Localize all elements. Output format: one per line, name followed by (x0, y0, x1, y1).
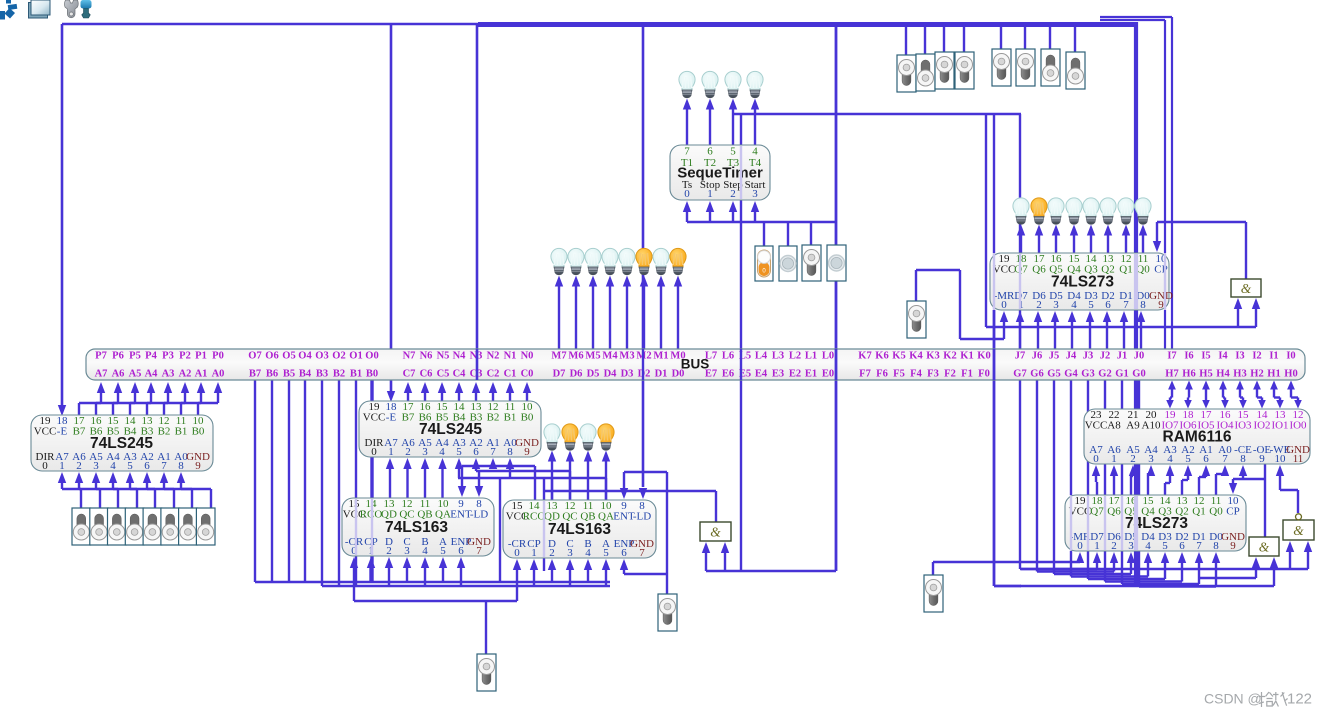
wire 245B B to bus C (438, 382, 446, 401)
wire 245A B to bus A (113, 382, 139, 415)
wire 163B Q to lamp (602, 451, 610, 501)
wire riser QA U4 (605, 478, 607, 500)
svg-text:0: 0 (1077, 540, 1083, 552)
svg-text:D6: D6 (570, 369, 583, 380)
wire bus B vertical (254, 380, 256, 582)
wire bus H to RAM IO bidirectional (1166, 381, 1176, 409)
switch data toggle (161, 508, 180, 545)
svg-text:3: 3 (1053, 299, 1059, 311)
lamp bus M (568, 248, 584, 274)
wire trunk top horizontal (62, 23, 1137, 26)
svg-text:-LD: -LD (470, 509, 488, 521)
wire 273B Q to RAM A (1092, 465, 1100, 495)
svg-text:7: 7 (476, 545, 482, 557)
svg-text:B2: B2 (487, 412, 500, 424)
svg-text:F2: F2 (944, 369, 956, 380)
svg-text:G3: G3 (1081, 369, 1094, 380)
svg-text:4: 4 (585, 547, 591, 559)
IC 74LS245 U2 (359, 401, 541, 458)
wire 245B B to bus C (404, 382, 412, 401)
wire 245A B to bus A (79, 382, 105, 415)
wire switch stub (1049, 24, 1051, 49)
svg-text:8: 8 (1140, 299, 1146, 311)
lamp 163B Q (562, 424, 578, 450)
svg-text:122: 122 (1287, 691, 1312, 708)
svg-text:E4: E4 (755, 369, 768, 380)
svg-text:J0: J0 (1134, 351, 1145, 362)
wire pale under 273B (1070, 496, 1072, 550)
svg-text:O0: O0 (365, 351, 378, 362)
wire bus M to lamp (657, 276, 665, 350)
wire AND G2 output (544, 491, 716, 522)
wire switch stub (1000, 24, 1002, 49)
svg-text:B4: B4 (299, 369, 312, 380)
wire T output to lamp (751, 99, 759, 146)
wire bus M to lamp (606, 276, 614, 350)
lamp sequetimer T (679, 71, 695, 97)
svg-text:E2: E2 (789, 369, 801, 380)
wire -MR net 273A (916, 270, 1008, 339)
lamp sequetimer T (725, 71, 741, 97)
wire bus J to 273A D pin (1034, 311, 1042, 349)
wire switch to 245A A pin (109, 472, 137, 508)
lamp 163B Q (580, 424, 596, 450)
wire 245B B to bus C (472, 382, 480, 401)
svg-text:ENT: ENT (613, 511, 635, 523)
svg-text:2: 2 (549, 547, 555, 559)
svg-text:H1: H1 (1267, 369, 1280, 380)
svg-text:J4: J4 (1066, 351, 1077, 362)
wire crossing bus x643 segment (642, 349, 644, 380)
wire trunk thick vertical to bus J0 (1134, 22, 1138, 349)
svg-text:I4: I4 (1218, 351, 1228, 362)
wire bus M to lamp (555, 276, 563, 350)
wire riser to 163 pin (602, 559, 610, 586)
svg-text:F1: F1 (961, 369, 973, 380)
wire AND G3 inputs (1020, 557, 1278, 586)
svg-text:K4: K4 (909, 351, 923, 362)
svg-text:P5: P5 (129, 351, 141, 362)
wire -LD 163A drop (475, 471, 483, 497)
wire pale under 163A (355, 499, 357, 555)
svg-text:9: 9 (1158, 299, 1164, 311)
svg-text:C2: C2 (487, 369, 500, 380)
wire bus J to 273A D pin (1086, 311, 1094, 349)
wire switch stub (905, 24, 907, 55)
switch data toggle (125, 508, 144, 545)
svg-text:A3: A3 (162, 369, 175, 380)
icon layers (29, 0, 51, 18)
svg-text:E6: E6 (722, 369, 734, 380)
svg-text:O3: O3 (315, 351, 328, 362)
wire drop 245B A2 (472, 458, 480, 471)
svg-text:B0: B0 (521, 412, 534, 424)
wire switch to 245A A pin (92, 472, 118, 508)
svg-text:0: 0 (1093, 453, 1099, 465)
wire switch stub (943, 24, 945, 52)
svg-text:N2: N2 (487, 351, 500, 362)
svg-text:7: 7 (1123, 299, 1129, 311)
svg-text:0: 0 (371, 446, 377, 458)
wire pale under 273A x1136 (1134, 254, 1138, 309)
IC 74LS273 U5 (990, 253, 1173, 311)
svg-text:2: 2 (1111, 540, 1117, 552)
svg-text:3: 3 (567, 547, 573, 559)
svg-text:D1: D1 (655, 369, 668, 380)
bus BUS (86, 349, 1305, 380)
svg-text:5: 5 (730, 146, 736, 158)
wire switch stub (1024, 24, 1026, 49)
svg-text:-LD: -LD (633, 511, 651, 523)
wire 245B B to bus C (523, 382, 531, 401)
icon tools (65, 0, 92, 18)
wire T output to lamp (683, 99, 691, 146)
svg-text:K2: K2 (943, 351, 956, 362)
wire riser RCO U4 (534, 466, 536, 500)
svg-text:A6: A6 (112, 369, 125, 380)
svg-text:VCC: VCC (363, 412, 386, 424)
wire bus G to 273B D staircase (1139, 380, 1220, 587)
wire 245A B to bus A (130, 382, 155, 415)
svg-text:9: 9 (1259, 453, 1265, 465)
switch -MR 273B (924, 575, 943, 612)
wire bus M to lamp (640, 276, 648, 350)
svg-text:H7: H7 (1165, 369, 1178, 380)
svg-text:P3: P3 (162, 351, 174, 362)
wire riser to 163 pin (457, 557, 465, 586)
svg-text:74LS245: 74LS245 (90, 435, 153, 452)
svg-text:74LS163: 74LS163 (548, 521, 611, 538)
svg-text:9: 9 (1230, 540, 1236, 552)
svg-text:7: 7 (684, 146, 690, 158)
wire 163A Q to 245B (386, 458, 394, 498)
svg-text:H5: H5 (1199, 369, 1212, 380)
svg-text:I5: I5 (1201, 351, 1210, 362)
svg-text:H0: H0 (1284, 369, 1297, 380)
svg-text:8: 8 (178, 460, 184, 472)
svg-text:H6: H6 (1182, 369, 1195, 380)
svg-text:K6: K6 (875, 351, 888, 362)
switch data toggle (179, 508, 198, 545)
svg-text:I3: I3 (1235, 351, 1244, 362)
svg-text:J2: J2 (1100, 351, 1111, 362)
svg-text:C0: C0 (521, 369, 534, 380)
lamp 273A Q (1013, 198, 1029, 224)
svg-text:5: 5 (440, 545, 446, 557)
wire 273A Q to lamp (1035, 225, 1043, 254)
svg-text:D4: D4 (604, 369, 618, 380)
wire bus H to RAM IO bidirectional (1219, 381, 1229, 409)
svg-text:B1: B1 (504, 412, 517, 424)
switch toggle (1041, 49, 1060, 86)
svg-text:7: 7 (1222, 453, 1228, 465)
svg-text:IO3: IO3 (1234, 420, 1252, 432)
wire bus M to lamp (623, 276, 631, 350)
watermark (1204, 691, 1312, 708)
svg-text:6: 6 (621, 547, 627, 559)
switch toggle (935, 52, 954, 89)
wire switch to 245A A pin (177, 472, 211, 508)
svg-text:1: 1 (531, 547, 537, 559)
wire 245A B to bus A (164, 382, 189, 415)
svg-text:F0: F0 (978, 369, 990, 380)
svg-text:N1: N1 (504, 351, 517, 362)
svg-text:1: 1 (1111, 453, 1117, 465)
wire bus B vertical (288, 380, 290, 582)
svg-text:10: 10 (1275, 453, 1287, 465)
svg-text:4: 4 (439, 446, 445, 458)
wire pale under 273B (1121, 496, 1123, 550)
svg-text:H2: H2 (1250, 369, 1263, 380)
AND gate G3 (1249, 537, 1279, 556)
lamp bus M (551, 248, 567, 274)
lamp 273A Q (1048, 198, 1064, 224)
svg-text:B7: B7 (73, 426, 86, 438)
svg-text:P0: P0 (212, 351, 224, 362)
wire switch to 245A A pin (160, 472, 192, 508)
wire T output to lamp (706, 99, 714, 146)
wire ENT 163A drop (458, 466, 466, 497)
svg-text:L4: L4 (755, 351, 768, 362)
svg-text:M5: M5 (585, 351, 600, 362)
svg-text:J5: J5 (1049, 351, 1060, 362)
svg-text:0: 0 (684, 188, 690, 200)
wire control input arrow (706, 201, 714, 222)
switch ENP (658, 594, 677, 631)
wire trunk through bus to 163B -LD (639, 24, 647, 499)
svg-text:9: 9 (524, 446, 530, 458)
wire control input arrow (683, 201, 691, 222)
wire bus G to 273B D staircase (1071, 380, 1152, 577)
lamp 273A Q (1118, 198, 1134, 224)
wire vertical x741 T3 to AND gate G2 (740, 114, 742, 571)
svg-text:IO2: IO2 (1253, 420, 1270, 432)
svg-text:1: 1 (1094, 540, 1100, 552)
wire pale under 273A x994 (993, 254, 995, 309)
wire 273A Q to lamp (1017, 225, 1025, 254)
wire -MR net 273B (933, 552, 1084, 575)
wire 245A B to bus A (96, 382, 122, 415)
wire drop 245B A0 (506, 458, 514, 478)
svg-text:5: 5 (1185, 453, 1191, 465)
wire thin branch right upper (1100, 17, 1172, 349)
svg-text:I7: I7 (1167, 351, 1176, 362)
wire bus G to 273B D staircase (1122, 380, 1203, 584)
svg-text:4: 4 (1071, 299, 1077, 311)
wire ENP 163B net (620, 559, 667, 574)
lamp 273A Q (1066, 198, 1082, 224)
svg-text:0: 0 (514, 547, 520, 559)
svg-text:5: 5 (1162, 540, 1168, 552)
wire riser to 163 pin (566, 559, 574, 586)
wire bus H to RAM IO bidirectional (1202, 381, 1210, 409)
switch data toggle (196, 508, 215, 545)
IC 74LS245 U1 (31, 415, 213, 472)
wire riser to 163 pin (385, 557, 393, 586)
wire 163A Q to 245B (403, 458, 411, 498)
wire button stub (787, 222, 789, 246)
svg-text:11: 11 (1293, 453, 1304, 465)
wire button stub (810, 222, 812, 245)
svg-text:74LS245: 74LS245 (419, 421, 482, 438)
IC RAM6116 U7 (1084, 409, 1310, 465)
svg-text:6: 6 (707, 146, 713, 158)
svg-text:6: 6 (458, 545, 464, 557)
svg-text:E3: E3 (772, 369, 784, 380)
svg-text:L6: L6 (722, 351, 734, 362)
wire 163B Q to lamp (566, 451, 574, 501)
svg-text:L2: L2 (789, 351, 801, 362)
svg-text:N7: N7 (403, 351, 416, 362)
wire bus B vertical (338, 380, 340, 586)
wire crossing bus x741 segment (740, 349, 742, 380)
wire bus J to 273A D pin (1051, 311, 1059, 349)
svg-text:A1: A1 (195, 369, 208, 380)
svg-text:G1: G1 (1115, 369, 1128, 380)
svg-text:Q0: Q0 (1136, 264, 1150, 276)
wire bus M to lamp (589, 276, 597, 350)
svg-text:7: 7 (639, 547, 645, 559)
svg-text:A8: A8 (1107, 420, 1121, 432)
svg-text:&: & (1293, 523, 1304, 538)
wire riser to 163 pin (530, 559, 538, 586)
svg-text:B7: B7 (249, 369, 261, 380)
wire bus H to RAM IO bidirectional (1287, 381, 1302, 409)
lamp sequetimer T (747, 71, 763, 97)
wire riser QC U4 (569, 471, 571, 500)
svg-text:6: 6 (1203, 453, 1209, 465)
svg-text:2: 2 (76, 460, 82, 472)
svg-text:B0: B0 (366, 369, 378, 380)
lamp 163B Q (544, 424, 560, 450)
wire level3 horizontal (458, 477, 606, 479)
svg-text:M1: M1 (653, 351, 668, 362)
lamp bus M (585, 248, 601, 274)
svg-text:6: 6 (144, 460, 150, 472)
wire bus B vertical (271, 380, 273, 582)
svg-text:Q6: Q6 (1107, 506, 1121, 518)
wire crossing bus x994 segment (477, 349, 994, 380)
svg-text:B6: B6 (266, 369, 278, 380)
svg-text:6: 6 (1179, 540, 1185, 552)
lamp bus M (670, 248, 686, 274)
svg-text:4: 4 (1145, 540, 1151, 552)
switch Step toggle (802, 245, 821, 281)
svg-text:G6: G6 (1030, 369, 1043, 380)
switch toggle (897, 55, 916, 92)
wire riser to 163 pin (367, 557, 375, 582)
wire bus G to 273B D staircase (1020, 380, 1101, 569)
svg-text:2: 2 (1130, 453, 1136, 465)
svg-text:4: 4 (752, 146, 758, 158)
svg-text:9: 9 (195, 460, 201, 472)
switch data toggle (108, 508, 127, 545)
wire bus H to RAM IO bidirectional (1184, 381, 1193, 409)
svg-text:1: 1 (59, 460, 65, 472)
AND gate G1 (1231, 279, 1261, 297)
wire pale under 273B (1087, 496, 1089, 550)
wire AND G1 input horizontal (986, 298, 1260, 327)
svg-text:&: & (710, 525, 721, 540)
icon branch (0, 0, 17, 20)
svg-text:RCO: RCO (523, 511, 546, 523)
wire 245A B to bus A (181, 382, 205, 415)
wire bus B vertical (321, 380, 323, 586)
wire bus G to 273B D staircase (1037, 380, 1118, 572)
svg-text:B0: B0 (192, 426, 205, 438)
switch data toggle (143, 508, 162, 545)
svg-text:3: 3 (422, 446, 428, 458)
wire pale under 273B x1136 (1134, 496, 1138, 550)
svg-text:4: 4 (1167, 453, 1173, 465)
svg-text:5: 5 (603, 547, 609, 559)
wire 245A B to bus A (147, 382, 172, 415)
wire crossing bus x836 segment (835, 349, 838, 380)
wire AND G2 inputs (702, 542, 836, 571)
svg-text:K7: K7 (858, 351, 871, 362)
button Stop (779, 246, 797, 281)
wire pale under 273A x1020 (1019, 254, 1021, 309)
switch -CR (477, 654, 496, 691)
svg-text:VCC: VCC (34, 426, 57, 438)
svg-text:6: 6 (1105, 299, 1111, 311)
IC 74LS273 U6 (1065, 495, 1246, 552)
wire drop 245B A1 (489, 458, 497, 469)
svg-text:L1: L1 (805, 351, 817, 362)
svg-text:4: 4 (422, 545, 428, 557)
svg-text:P2: P2 (179, 351, 191, 362)
svg-text:I2: I2 (1252, 351, 1261, 362)
svg-text:F6: F6 (876, 369, 888, 380)
switch toggle (1066, 52, 1085, 89)
wire 273B Q to RAM A (1216, 465, 1229, 495)
svg-text:6: 6 (473, 446, 479, 458)
svg-text:G2: G2 (1098, 369, 1111, 380)
svg-text:VCC: VCC (1085, 420, 1108, 432)
wire bus J to 273A D pin (1068, 311, 1076, 349)
wire switch to 245A A pin (75, 472, 100, 508)
svg-text:BUS: BUS (681, 357, 710, 372)
wire riser QD U4 (551, 478, 553, 500)
wire T3 distribution horizontal (733, 113, 1021, 115)
svg-text:J1: J1 (1117, 351, 1128, 362)
wire AND G4 inputs (1021, 541, 1312, 569)
svg-text:J3: J3 (1083, 351, 1094, 362)
svg-text:C6: C6 (420, 369, 433, 380)
svg-text:8: 8 (1240, 453, 1246, 465)
svg-text:F5: F5 (893, 369, 905, 380)
svg-text:A10: A10 (1142, 420, 1161, 432)
wire riser to 163 pin (439, 557, 447, 582)
svg-text:A0: A0 (212, 369, 225, 380)
svg-text:N6: N6 (420, 351, 433, 362)
svg-text:7: 7 (490, 446, 496, 458)
wire data bus horizontal lower (322, 585, 610, 587)
wire riser to 163 pin (584, 559, 592, 582)
svg-text:8: 8 (507, 446, 513, 458)
wire bus M to lamp (674, 276, 682, 350)
wire trunk to bus N3 (476, 24, 479, 380)
svg-text:74LS273: 74LS273 (1051, 274, 1114, 291)
svg-text:D3: D3 (621, 369, 634, 380)
svg-text:Q1: Q1 (1119, 264, 1132, 276)
wire bus J to 273A D pin (1103, 311, 1111, 349)
svg-text:Q1: Q1 (1192, 506, 1205, 518)
svg-text:5: 5 (127, 460, 133, 472)
wire switch to 245A A pin (126, 472, 155, 508)
svg-text:N4: N4 (453, 351, 467, 362)
lamp 273A Q (1135, 198, 1151, 224)
